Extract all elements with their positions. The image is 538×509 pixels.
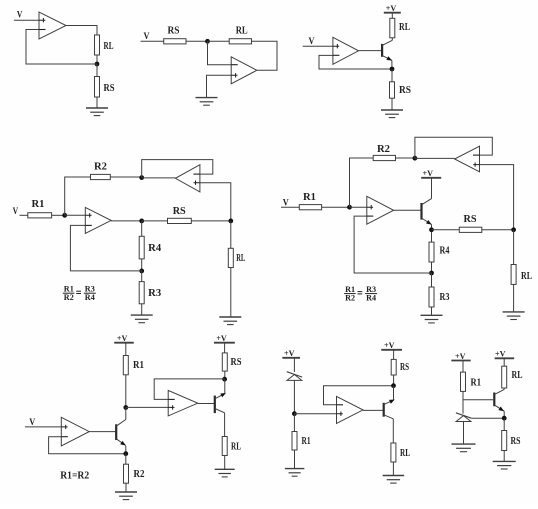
svg-text:R4: R4 <box>148 243 162 254</box>
Q6 emitter lead <box>494 405 504 411</box>
svg-text:RS: RS <box>104 83 115 94</box>
wire node to RS <box>96 64 98 77</box>
op-amp U4 <box>85 207 111 233</box>
wire RS to node H <box>224 371 226 379</box>
wire A3 inverting input feedback to node H2 <box>324 386 394 405</box>
wire U6 output to Q2 base <box>394 209 421 211</box>
svg-text:R3: R3 <box>440 292 450 303</box>
+V supply (circuit 5) <box>421 168 441 178</box>
wire +V to zener D1 <box>293 358 295 372</box>
resistor R3 (circuit 4) <box>139 282 144 304</box>
wire R2 to ground <box>125 483 127 492</box>
svg-text:RL: RL <box>236 26 248 37</box>
wire R3 to ground <box>431 307 433 315</box>
wire R1 to zener D2 / base tap <box>462 391 464 413</box>
transistor Q1 base bar <box>381 44 383 57</box>
op-amp A2 <box>168 390 198 416</box>
op-amp U2 (output at right tip) <box>231 57 257 84</box>
Q1 emitter arrow <box>386 56 393 62</box>
svg-text:R2: R2 <box>134 469 145 480</box>
wire A1 output to Q3 base <box>89 431 116 433</box>
wire RL to ground <box>230 268 232 318</box>
wire Q4 collector to RL <box>224 413 226 437</box>
svg-text:RL: RL <box>231 442 241 453</box>
svg-text:R1: R1 <box>32 199 45 210</box>
wire V to RS <box>141 40 164 42</box>
svg-text:RS: RS <box>399 85 411 96</box>
Q5 emitter arrow <box>389 398 396 404</box>
transistor Q2 base bar <box>420 203 422 220</box>
wire RS to node H2 <box>393 375 395 386</box>
wire U1 output to RL <box>66 26 97 36</box>
node F (circuit 6) <box>123 405 128 410</box>
wire node C2 to R4 <box>431 232 433 242</box>
wire node A2 to U6 non-inverting input <box>350 206 367 208</box>
node J (circuit 7) <box>292 411 297 416</box>
Q5 emitter lead (up) <box>384 400 394 404</box>
wire zener D1 to node J <box>293 380 295 413</box>
formula R1/R2 = R3/R4 (circuit 4) <box>63 284 96 303</box>
node A2 (circuit 5) <box>347 205 352 210</box>
wire RL to op-amp U2 output <box>252 41 278 70</box>
wire node to RS <box>391 69 393 82</box>
wire +V to RL <box>503 358 505 366</box>
wire Q5 emitter to node H2 <box>393 386 395 401</box>
svg-text:R2: R2 <box>377 144 390 155</box>
op-amp U1 <box>39 12 66 39</box>
resistor RS (circuit 1) <box>95 77 100 98</box>
resistor RL (circuit 4) <box>228 248 233 267</box>
wire Q2 emitter to node C2 <box>431 225 433 230</box>
svg-text:+V: +V <box>384 340 395 350</box>
wire U5 non-inverting input to node D <box>200 183 231 221</box>
wire Q1 emitter to node <box>391 60 393 69</box>
Q2 emitter lead <box>422 218 432 225</box>
svg-text:R1=R2: R1=R2 <box>60 470 89 482</box>
svg-text:V: V <box>13 207 19 217</box>
svg-text:V: V <box>17 11 23 21</box>
wire RL to Q6 collector <box>503 388 505 389</box>
wire V to op-amp U1 non-inverting input <box>14 19 39 21</box>
svg-text:RL: RL <box>104 41 114 52</box>
transistor Q6 base bar <box>493 393 495 407</box>
svg-text:+V: +V <box>284 348 295 358</box>
wire Q6 emitter to node L <box>503 411 505 418</box>
wire U4 output to node C <box>111 220 142 222</box>
node H (circuit 6) <box>222 377 227 382</box>
svg-text:+V: +V <box>423 168 434 178</box>
node C2 (circuit 5) <box>429 227 434 232</box>
wire Q3 emitter to node G <box>125 446 127 454</box>
wire Q4 emitter to node H <box>224 379 226 393</box>
transistor Q3 base bar <box>115 424 117 440</box>
resistor R2 (circuit 5) <box>373 155 395 160</box>
resistor RL (circuit 1) <box>95 35 100 55</box>
wire node H feedback to A2 inverting input <box>154 379 224 400</box>
svg-text:+V: +V <box>455 351 466 361</box>
wire R2 to node B <box>110 176 141 178</box>
wire A2 output to Q4 base <box>198 403 215 405</box>
resistor RS (circuit 6) <box>222 353 227 371</box>
resistor R2 (circuit 4) <box>91 174 111 179</box>
node E (circuit 4) <box>139 269 144 274</box>
ground below RS (circuit 8) <box>493 461 516 469</box>
wire U3 inverting input feedback to emitter node <box>319 55 392 69</box>
wire +V to RS <box>393 350 395 360</box>
formula R1/R2 = R3/R4 (circuit 5) <box>344 284 377 303</box>
resistor RS (circuit 3) <box>390 82 395 98</box>
Q2 emitter arrow <box>426 220 433 226</box>
wire Q3 collector to node F <box>125 408 127 420</box>
wire RL to ground <box>513 284 515 312</box>
wire RL to ground <box>392 462 394 476</box>
wire Q5 collector to RL <box>392 419 394 443</box>
wire zener D2 to ground <box>463 421 465 444</box>
svg-text:R1: R1 <box>302 436 311 447</box>
Q4 collector lead (down) <box>215 409 225 413</box>
+V supply (circuit 3) <box>384 3 401 13</box>
wire RS to node D2 <box>482 229 514 231</box>
node B (circuit 4) <box>139 175 144 180</box>
resistor RS (circuit 7) <box>391 359 396 375</box>
wire node B to U5 output <box>142 177 176 179</box>
wire RL to ground <box>224 456 226 470</box>
wire U4 inverting input to node E <box>70 225 141 271</box>
wire R1 to node F <box>125 375 127 408</box>
wire +V to R1 <box>125 343 127 356</box>
node G (circuit 6) <box>123 451 128 456</box>
zener diode D2 <box>456 413 471 422</box>
Q3 collector lead <box>116 420 126 427</box>
wire node C to RS <box>142 220 168 222</box>
svg-text:R2: R2 <box>64 292 74 302</box>
wire R3 to ground <box>141 304 143 315</box>
+V supply right (circuit 8) <box>495 349 515 359</box>
svg-text:RL: RL <box>399 22 410 33</box>
ground below R1 (circuit 7) <box>285 469 305 477</box>
svg-text:V: V <box>309 37 315 47</box>
resistor RS (circuit 8) <box>502 431 507 451</box>
wire U5 feedback output to inverting input <box>142 160 213 178</box>
Q6 collector lead <box>494 389 504 394</box>
wire A3 output to Q5 base <box>363 409 383 411</box>
ground (circuit 3) <box>381 110 403 118</box>
wire node to RL <box>208 40 230 42</box>
transistor Q4 base bar <box>214 396 216 414</box>
resistor R1 (circuit 4) <box>28 213 52 218</box>
wire RS to ground <box>391 98 393 110</box>
wire node L to RS <box>503 418 505 430</box>
wire node A to U4 non-inverting input <box>65 214 86 216</box>
wire V to op-amp U3 non-inverting input <box>303 45 333 47</box>
resistor RS (circuit 2) <box>164 39 186 44</box>
op-amp A1 <box>61 417 89 446</box>
wire node A up to R2 <box>65 177 91 215</box>
ground (circuit 1) <box>86 108 108 116</box>
+V supply left (circuit 7) <box>282 348 300 358</box>
wire node J to R1 <box>293 414 295 432</box>
ground below R3 (circuit 5) <box>421 315 443 323</box>
wire RS to node <box>186 40 208 42</box>
wire +V to RL <box>391 13 393 19</box>
svg-text:RL: RL <box>512 370 523 381</box>
Q6 emitter arrow <box>498 407 505 413</box>
+V supply left (circuit 6) <box>114 333 134 343</box>
svg-text:RL: RL <box>236 253 245 264</box>
node A (circuit 4) <box>62 213 67 218</box>
svg-text:RS: RS <box>173 206 186 217</box>
wire +V to R1 <box>462 361 464 373</box>
svg-text:RL: RL <box>521 271 532 282</box>
wire node J to A3 non-inverting input <box>294 413 336 415</box>
node emitter/RS junction (circuit 3) <box>390 67 395 72</box>
wire V to R1 <box>20 214 28 216</box>
wire node F to A2 non-inverting input <box>126 406 168 408</box>
Q1 emitter lead <box>382 55 392 60</box>
ground below RL (circuit 4) <box>219 317 241 325</box>
wire +V to RS <box>224 343 226 353</box>
svg-text:+V: +V <box>216 333 227 343</box>
Q3 emitter lead <box>116 439 126 446</box>
Q5 collector lead (down) <box>384 415 394 419</box>
svg-text:+V: +V <box>117 333 128 343</box>
zener diode D1 <box>287 372 302 381</box>
wire +V to Q2 collector <box>431 178 433 199</box>
ground below R3 (circuit 4) <box>131 315 153 323</box>
wire R1 to node A2 <box>322 206 350 208</box>
node H2 (circuit 7) <box>391 383 396 388</box>
resistor RL (circuit 2, feedback) <box>229 39 251 44</box>
node RL/RS junction (circuit 1) <box>95 62 100 67</box>
wire node G to R2 <box>125 454 127 465</box>
wire R4 to node E <box>141 259 143 271</box>
node C (circuit 4) <box>139 219 144 224</box>
ground below RL (circuit 6) <box>215 469 235 477</box>
wire node E2 to R3 <box>431 273 433 287</box>
wire zener D2 cathode to node L <box>471 417 504 419</box>
wire RS to node D <box>191 220 231 222</box>
svg-text:R1: R1 <box>133 360 144 371</box>
svg-text:R2: R2 <box>345 293 355 303</box>
wire V to R1 <box>281 206 299 208</box>
svg-text:V: V <box>144 32 150 42</box>
op-amp A3 <box>337 396 364 423</box>
wire R4 to node E2 <box>431 262 433 273</box>
Q1 collector lead <box>382 40 392 45</box>
wire node E to R3 <box>141 271 143 282</box>
node L (circuit 8) <box>502 416 507 421</box>
resistor R1 (circuit 7) <box>292 432 297 451</box>
svg-text:RL: RL <box>400 448 410 459</box>
wire feedback node to U1 inverting input <box>26 30 97 65</box>
Q4 emitter lead (up) <box>215 394 225 399</box>
node D2 (circuit 5) <box>511 227 516 232</box>
wire V to A1 non-inverting input <box>25 426 61 428</box>
svg-text:+V: +V <box>386 3 397 13</box>
op-amp U7 (buffer, points left) <box>455 146 480 172</box>
wire RL to Q1 collector <box>391 38 393 41</box>
wire U7 feedback output to inverting input <box>415 137 492 158</box>
wire R1 to ground <box>294 450 296 469</box>
Q2 collector lead <box>422 199 432 205</box>
svg-text:R4: R4 <box>366 293 377 303</box>
wire U6 inverting input to node E2 <box>354 216 431 273</box>
ground below RL (circuit 5) <box>503 312 525 320</box>
+V supply right (circuit 6) <box>214 333 235 343</box>
op-amp U5 (buffer, points left) <box>175 165 200 192</box>
ground below RL (circuit 7) <box>383 476 405 484</box>
wire RS to ground <box>503 451 505 462</box>
resistor RL (circuit 7) <box>391 443 396 462</box>
svg-text:RS: RS <box>168 26 180 37</box>
wire RL to node <box>96 55 98 64</box>
wire RS to ground <box>96 97 98 108</box>
wire A1 inverting input to node G <box>49 437 126 454</box>
svg-text:R4: R4 <box>440 246 451 257</box>
resistor RS (circuit 4) <box>168 218 192 223</box>
resistor RL (circuit 5) <box>511 265 516 285</box>
svg-text:R1: R1 <box>471 378 482 389</box>
wire U7 non-inverting input to node D2 <box>480 165 514 230</box>
op-amp U3 <box>333 37 359 64</box>
wire node to U2 inverting input <box>208 41 232 64</box>
ground below R2 (circuit 6) <box>115 492 137 500</box>
svg-text:RS: RS <box>511 436 521 447</box>
wire base tap to Q6 base <box>463 399 493 401</box>
transistor Q5 base bar <box>383 403 385 417</box>
resistor R1 (circuit 6) <box>123 356 128 375</box>
resistor RL (circuit 8) <box>502 366 507 388</box>
wire node A2 up to R2 <box>350 158 374 207</box>
node D (circuit 4) <box>228 219 233 224</box>
svg-text:+V: +V <box>495 349 506 359</box>
resistor RS (circuit 5) <box>459 227 482 232</box>
wire U2 non-inverting input to ground <box>207 75 232 97</box>
resistor RL (circuit 6) <box>222 437 227 456</box>
resistor R4 (circuit 5) <box>429 242 434 262</box>
Q4 emitter arrow (points to node H) <box>220 391 227 397</box>
svg-text:R3: R3 <box>148 288 161 299</box>
svg-text:R1: R1 <box>303 192 316 203</box>
wire R1 to node A <box>52 214 65 216</box>
resistor R2 (circuit 6) <box>124 464 129 483</box>
resistor RL (circuit 3) <box>390 18 395 38</box>
resistor R1 (circuit 8) <box>461 372 466 391</box>
resistor R4 (circuit 4) <box>139 236 144 259</box>
ground below zener (circuit 8) <box>452 444 476 452</box>
wire R2 to node B2 <box>396 157 415 159</box>
wire node C to R4 <box>141 221 143 236</box>
+V supply right (circuit 7) <box>381 340 402 350</box>
svg-text:RS: RS <box>400 362 409 373</box>
wire node B2 to U7 output <box>415 157 455 159</box>
resistor R3 (circuit 5) <box>429 287 434 307</box>
node B2 (circuit 5) <box>413 156 418 161</box>
svg-text:RS: RS <box>231 357 242 368</box>
wire node D2 to RL <box>513 230 515 265</box>
wire node C2 to RS <box>432 229 460 231</box>
wire U3 output to Q1 base <box>359 50 382 52</box>
ground (circuit 2) <box>196 98 218 106</box>
Q3 emitter arrow <box>120 441 127 448</box>
+V supply left (circuit 8) <box>451 351 470 361</box>
node RS/RL junction (circuit 2) <box>205 39 210 44</box>
node E2 (circuit 5) <box>429 271 434 276</box>
op-amp U6 <box>367 196 394 224</box>
svg-text:R4: R4 <box>85 292 96 302</box>
svg-text:R2: R2 <box>94 162 107 173</box>
resistor R1 (circuit 5) <box>299 205 321 210</box>
svg-text:RS: RS <box>464 214 477 225</box>
wire node D to RL <box>230 221 232 248</box>
